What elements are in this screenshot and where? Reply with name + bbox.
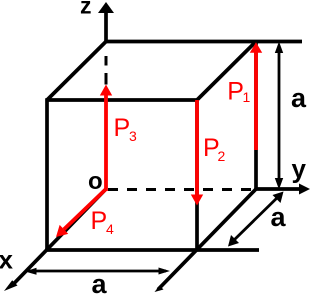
svg-text:y: y [292, 154, 307, 184]
svg-text:a: a [92, 269, 108, 295]
svg-text:P: P [91, 207, 108, 235]
svg-text:P: P [227, 78, 244, 106]
svg-text:a: a [271, 202, 287, 232]
svg-text:z: z [80, 0, 92, 19]
svg-text:2: 2 [218, 148, 226, 164]
svg-text:o: o [88, 168, 103, 195]
svg-text:1: 1 [243, 89, 251, 105]
svg-text:P: P [114, 114, 131, 142]
svg-text:3: 3 [129, 128, 137, 144]
svg-text:a: a [291, 83, 307, 113]
svg-text:4: 4 [106, 221, 114, 237]
svg-text:x: x [0, 245, 14, 275]
